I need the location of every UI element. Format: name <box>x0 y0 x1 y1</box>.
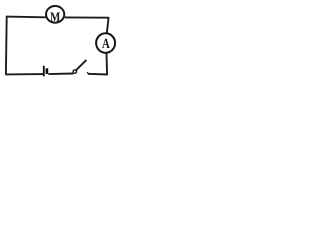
switch pivot <box>73 70 76 73</box>
ammeter A <box>96 33 115 53</box>
switch fixed contact tick <box>86 72 89 74</box>
wire top-left horizontal <box>6 16 46 19</box>
wire right vertical (corner down to ammeter) <box>107 17 109 33</box>
motor M <box>46 6 64 23</box>
wire bottom-right horizontal <box>88 73 108 76</box>
switch S (open) lever <box>76 60 87 71</box>
wire battery to switch <box>48 73 73 76</box>
battery positive plate (long thin) <box>43 66 45 77</box>
wire top-right horizontal <box>65 16 109 18</box>
wire bottom-left horizontal <box>5 73 43 75</box>
wire left vertical <box>5 16 8 74</box>
wire from ammeter down <box>106 54 109 75</box>
battery negative plate (short thick) <box>46 68 49 74</box>
